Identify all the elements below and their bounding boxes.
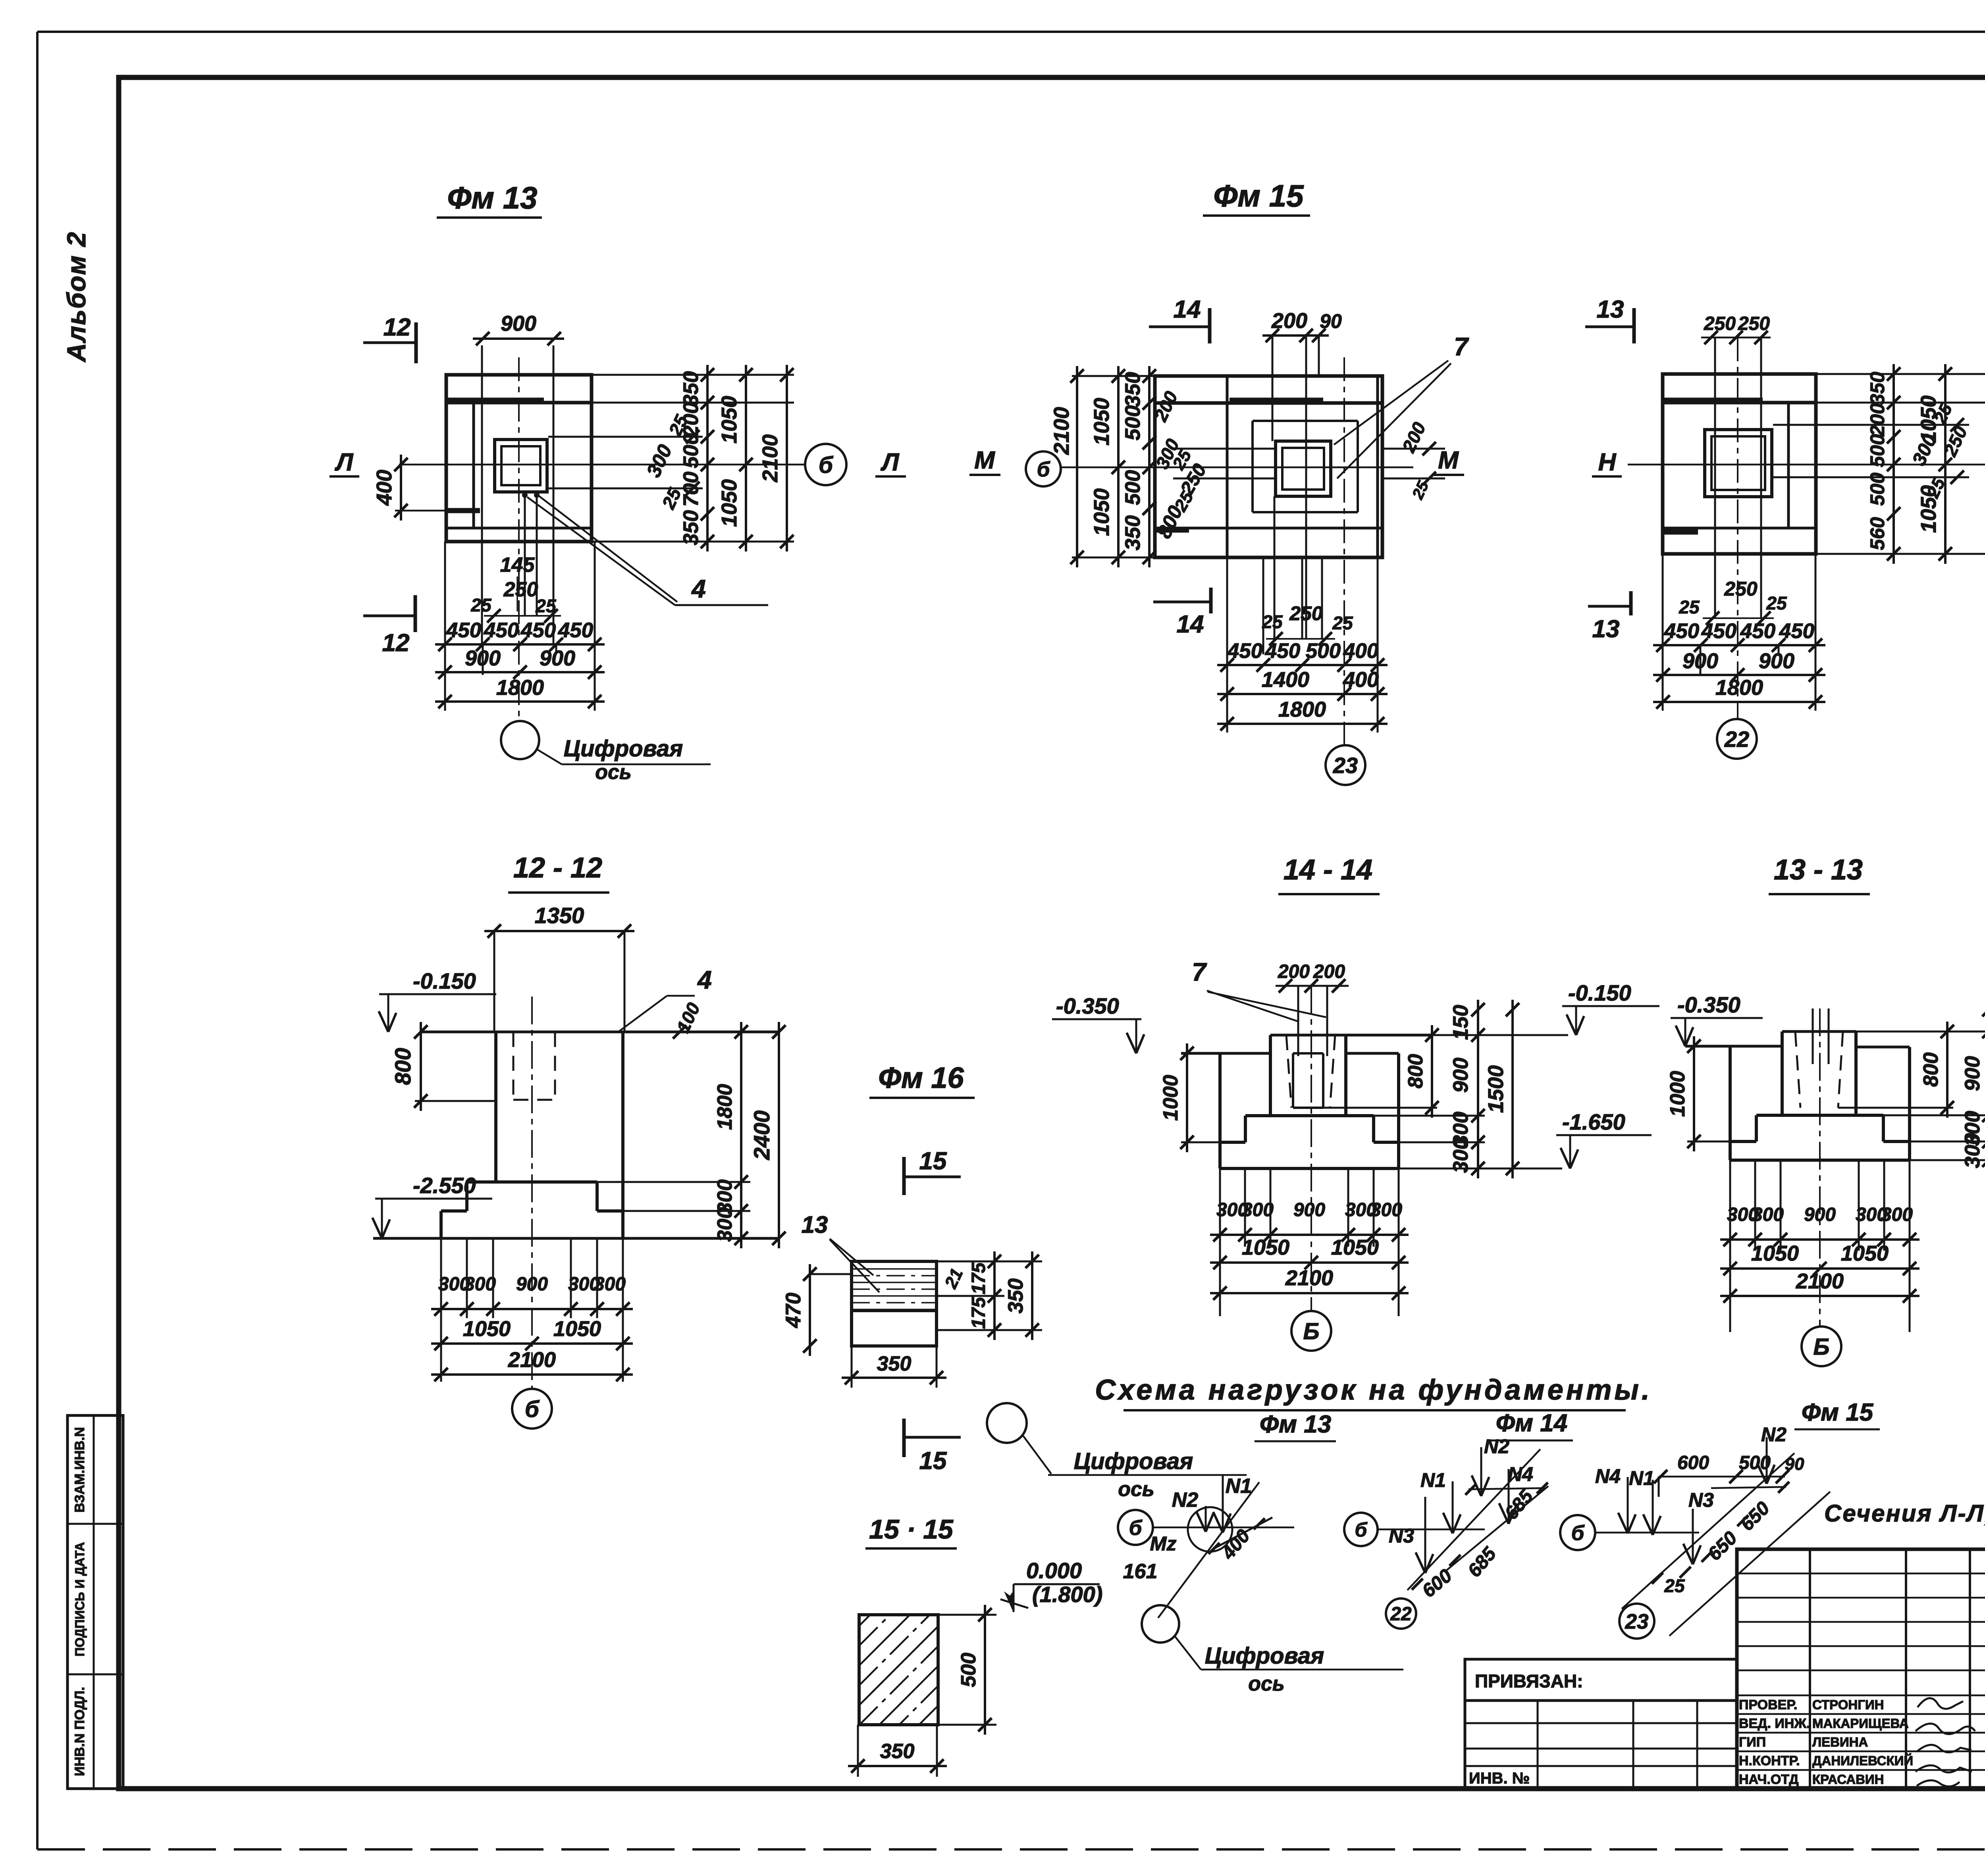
12-12 right chain 2400 bbox=[778, 1022, 780, 1248]
13-13 wing top right bbox=[1856, 1046, 1910, 1049]
svg-text:2100: 2100 bbox=[758, 434, 782, 482]
svg-text:250: 250 bbox=[1738, 313, 1770, 334]
svg-text:N4: N4 bbox=[1595, 1465, 1621, 1487]
FM16 dims 175-175 bbox=[993, 1251, 996, 1340]
svg-text:1050: 1050 bbox=[717, 396, 741, 443]
FM13 load diagonal bbox=[1158, 1482, 1259, 1618]
FM14 axis circle 22 bbox=[1717, 719, 1757, 759]
FM13 bottom-left dark wall segment bbox=[446, 508, 480, 513]
svg-text:350: 350 bbox=[880, 1740, 915, 1763]
FM13 bolt dot b bbox=[534, 492, 540, 498]
svg-text:450: 450 bbox=[1265, 639, 1300, 663]
FM16 dim 470 left bbox=[809, 1264, 811, 1356]
12-12 top dim 1350 bbox=[484, 930, 634, 932]
FM13 wall line extension left bbox=[395, 510, 446, 512]
svg-text:1050: 1050 bbox=[1841, 1242, 1889, 1265]
FM14 load diagonal main bbox=[1407, 1449, 1540, 1590]
svg-text:Цифровая: Цифровая bbox=[1205, 1643, 1324, 1669]
svg-text:500: 500 bbox=[679, 433, 703, 468]
FM15 left ext line bottom bbox=[1072, 557, 1155, 559]
FM16 mid line bbox=[852, 1310, 937, 1312]
FM15 right dim 200 bbox=[1382, 448, 1445, 450]
FM15 bottom chain segs bbox=[1217, 664, 1388, 666]
svg-text:1050: 1050 bbox=[1917, 485, 1941, 533]
svg-text:ЛЕВИНА: ЛЕВИНА bbox=[1812, 1735, 1868, 1749]
13-13 socket dashed bbox=[1795, 1032, 1800, 1108]
svg-text:1050: 1050 bbox=[1751, 1242, 1799, 1265]
14-14 bottom chain 2100 bbox=[1210, 1292, 1409, 1294]
13-13 left dim 1000 bbox=[1693, 1036, 1695, 1151]
FM15 axis line bbox=[1060, 467, 1413, 469]
svg-text:Сечения Л-Л, Н-Н, М-М см. лист: Сечения Л-Л, Н-Н, М-М см. лист КЖ-12. bbox=[1824, 1500, 1985, 1527]
12-12 bottom chain 300s bbox=[431, 1308, 633, 1310]
14-14 socket dashed bbox=[1286, 1035, 1291, 1108]
svg-text:1000: 1000 bbox=[1666, 1071, 1689, 1117]
svg-text:900: 900 bbox=[1759, 649, 1794, 673]
svg-text:900: 900 bbox=[1804, 1204, 1836, 1225]
svg-text:450: 450 bbox=[1740, 619, 1775, 643]
13-13 axis circle B bbox=[1802, 1327, 1841, 1366]
FM13 load circle b bbox=[1118, 1510, 1153, 1545]
FM14 section mark 13 bottom bbox=[1629, 591, 1633, 615]
12-12 dim 100 bbox=[673, 1025, 686, 1039]
svg-text:М: М bbox=[974, 447, 995, 474]
svg-text:ПОДПИСЬ И ДАТА: ПОДПИСЬ И ДАТА bbox=[73, 1542, 87, 1656]
svg-text:N2: N2 bbox=[1484, 1435, 1509, 1458]
FM13 socket bolt line a bbox=[524, 494, 526, 616]
FM15 load N4 bbox=[1627, 1477, 1629, 1533]
13-13 pedestal sides bbox=[1781, 1032, 1784, 1115]
14-14 socket walls bbox=[1292, 1053, 1294, 1108]
left stamp row line 1 bbox=[67, 1523, 123, 1525]
FM16 section mark 15 top bbox=[902, 1157, 906, 1195]
14-14 wing right edge bbox=[1397, 1053, 1400, 1142]
svg-text:500: 500 bbox=[957, 1653, 980, 1687]
svg-text:500: 500 bbox=[1866, 434, 1889, 467]
svg-text:90: 90 bbox=[1320, 310, 1342, 332]
13-13 wing right edge bbox=[1908, 1047, 1911, 1141]
FM13 bottom ext verticals bbox=[444, 542, 446, 711]
14-14 right chain 1500 bbox=[1511, 1000, 1514, 1178]
FM14 bottom chain 1800 bbox=[1653, 701, 1825, 703]
14-14 axis circle B bbox=[1291, 1311, 1331, 1351]
FM16 hatch lines bbox=[852, 1268, 937, 1270]
svg-text:N2: N2 bbox=[1172, 1488, 1199, 1512]
FM14 bottom chain 900s bbox=[1653, 674, 1825, 676]
svg-text:300: 300 bbox=[1881, 1204, 1913, 1225]
12-12 centerline bbox=[531, 997, 533, 1390]
FM13 load axis leader bbox=[1175, 1637, 1201, 1670]
FM14 slab outline bbox=[1663, 374, 1816, 554]
svg-text:(1.800): (1.800) bbox=[1032, 1582, 1102, 1607]
FM15 wall thin line y1130 bbox=[1173, 448, 1276, 450]
svg-text:Н.КОНТР.: Н.КОНТР. bbox=[1739, 1753, 1800, 1768]
FM14 section mark 13 top bbox=[1632, 308, 1636, 343]
svg-text:1500: 1500 bbox=[1484, 1065, 1508, 1113]
svg-text:23: 23 bbox=[1333, 753, 1358, 778]
FM13 column centerline bbox=[518, 357, 520, 721]
FM15 column socket outer bbox=[1276, 441, 1331, 496]
svg-text:500: 500 bbox=[1121, 470, 1145, 505]
14-14 wing top left bbox=[1181, 1052, 1270, 1055]
svg-text:б: б bbox=[819, 452, 834, 478]
svg-text:2100: 2100 bbox=[1796, 1269, 1844, 1293]
svg-text:500: 500 bbox=[1739, 1452, 1771, 1473]
svg-text:350: 350 bbox=[877, 1352, 912, 1375]
14-14 bolt lines bbox=[1297, 986, 1299, 1056]
svg-text:450: 450 bbox=[484, 619, 519, 642]
svg-text:450: 450 bbox=[1227, 639, 1262, 663]
FM13 top dim 900 bbox=[473, 337, 564, 340]
FM15 load axis line bbox=[1595, 1532, 1699, 1534]
svg-text:-0.150: -0.150 bbox=[413, 968, 476, 993]
FM15 bottom-left dark wall segment bbox=[1155, 528, 1189, 533]
FM15 load N2 bbox=[1766, 1437, 1768, 1484]
svg-text:N2: N2 bbox=[1761, 1423, 1786, 1446]
14-14 left dim 1000 bbox=[1186, 1043, 1188, 1152]
svg-text:ось: ось bbox=[595, 761, 632, 784]
FM16 ext right bbox=[937, 1261, 1042, 1263]
svg-text:НАЧ.ОТД: НАЧ.ОТД bbox=[1739, 1772, 1798, 1787]
sig table outline bbox=[1737, 1549, 1985, 1789]
14-14 step top bbox=[1245, 1114, 1374, 1117]
FM13 leader 4 tail bbox=[675, 604, 768, 606]
14-14 step sides bbox=[1244, 1116, 1247, 1142]
FM13 column socket outer bbox=[495, 440, 547, 492]
svg-text:б: б bbox=[1129, 1516, 1143, 1540]
svg-text:23: 23 bbox=[1625, 1610, 1649, 1633]
FM16 axis circle bbox=[987, 1403, 1027, 1443]
svg-text:1000: 1000 bbox=[1159, 1075, 1182, 1121]
FM14 top dim 250-250 bbox=[1701, 337, 1771, 339]
FM13 axis circle b bbox=[805, 444, 846, 485]
13-13 right ext 2875 bbox=[1910, 1141, 1985, 1143]
svg-text:200: 200 bbox=[1866, 403, 1889, 437]
svg-text:2100: 2100 bbox=[508, 1348, 556, 1372]
FM13 socket bolt line b bbox=[536, 494, 538, 616]
svg-text:Схема нагрузок на фундаменты.: Схема нагрузок на фундаменты. bbox=[1095, 1374, 1652, 1406]
FM13 bottom chain 450s bbox=[435, 643, 605, 646]
FM15 left chain 1050s bbox=[1117, 366, 1120, 567]
FM14 load N1 bbox=[1452, 1481, 1454, 1533]
svg-text:300: 300 bbox=[1449, 1138, 1472, 1173]
13-13 right ext 2809 bbox=[1883, 1114, 1985, 1116]
svg-text:Фм 13: Фм 13 bbox=[447, 180, 537, 215]
12-12 step1 sides bbox=[465, 1182, 468, 1211]
FM13 right ext line top bbox=[592, 374, 794, 376]
svg-text:14 - 14: 14 - 14 bbox=[1284, 854, 1372, 886]
svg-text:2100: 2100 bbox=[1050, 407, 1073, 455]
svg-text:25: 25 bbox=[470, 595, 492, 615]
svg-text:90: 90 bbox=[1785, 1454, 1804, 1474]
13-13 step sides bbox=[1755, 1115, 1758, 1141]
FM14 inner step vertical bbox=[1787, 403, 1790, 528]
svg-text:500: 500 bbox=[1866, 472, 1889, 506]
13-13 bolt lines bbox=[1812, 1008, 1814, 1064]
svg-text:Фм 15: Фм 15 bbox=[1802, 1399, 1874, 1426]
svg-text:Цифровая: Цифровая bbox=[1074, 1448, 1193, 1474]
svg-text:200: 200 bbox=[1271, 309, 1307, 333]
FM16 bottom dim 350 bbox=[842, 1377, 946, 1379]
FM13 small chain line bbox=[484, 615, 561, 617]
svg-text:161: 161 bbox=[1123, 1560, 1158, 1583]
12-12 right chain 1800-300-300 bbox=[740, 1022, 742, 1248]
FM14 bottom ext verticals bbox=[1662, 554, 1664, 711]
FM15 column socket inner bbox=[1282, 448, 1324, 490]
left stamp divider bbox=[93, 1415, 95, 1789]
svg-text:175: 175 bbox=[968, 1297, 989, 1329]
12-12 leader 4 bbox=[619, 996, 667, 1031]
14-14 bottom chain 1050s bbox=[1210, 1261, 1409, 1264]
14-14 pedestal top bbox=[1270, 1034, 1433, 1037]
FM13 vertical extension line 1394 bbox=[553, 345, 555, 644]
svg-text:25: 25 bbox=[1679, 597, 1700, 617]
svg-text:300: 300 bbox=[1752, 1204, 1784, 1225]
FM15 bolt line b bbox=[1305, 335, 1307, 639]
13-13 wing top left bbox=[1685, 1045, 1782, 1048]
svg-text:12: 12 bbox=[382, 629, 410, 657]
svg-text:1050: 1050 bbox=[463, 1317, 511, 1341]
svg-text:ДАНИЛЕВСКИЙ: ДАНИЛЕВСКИЙ bbox=[1812, 1753, 1913, 1768]
svg-text:1800: 1800 bbox=[496, 676, 544, 700]
svg-text:800: 800 bbox=[1404, 1054, 1427, 1089]
FM14 right chain 1050s bbox=[1944, 364, 1946, 564]
14-14 wing left edge bbox=[1218, 1053, 1222, 1142]
12-12 right ext 3050 bbox=[623, 1210, 750, 1212]
svg-text:Альбом 2: Альбом 2 bbox=[62, 231, 91, 363]
FM15 load N3 bbox=[1692, 1509, 1694, 1564]
14-14 bottom ext verticals bbox=[1219, 1168, 1221, 1316]
FM13 small dim 25-300-25 labels bbox=[686, 430, 700, 443]
svg-text:1350: 1350 bbox=[535, 903, 584, 928]
svg-text:900: 900 bbox=[1449, 1058, 1472, 1093]
svg-text:13 - 13: 13 - 13 bbox=[1774, 854, 1863, 886]
svg-text:800: 800 bbox=[390, 1048, 415, 1085]
FM15 top band dark wall segment bbox=[1230, 398, 1323, 403]
svg-text:22: 22 bbox=[1724, 727, 1749, 752]
FM15 load diagonal main bbox=[1622, 1453, 1794, 1609]
svg-text:350: 350 bbox=[1004, 1278, 1027, 1313]
privyazan grid outline bbox=[1465, 1701, 1737, 1789]
svg-text:1050: 1050 bbox=[1331, 1236, 1379, 1259]
svg-text:б: б bbox=[1037, 458, 1050, 481]
svg-text:450: 450 bbox=[446, 619, 481, 642]
13-13 bottom chain 1050s bbox=[1720, 1267, 1919, 1270]
14-14 right chain 150-900-300-300 bbox=[1477, 1000, 1479, 1178]
FM13 load axis line bbox=[1153, 1527, 1294, 1529]
FM14 load circle b bbox=[1344, 1513, 1378, 1546]
12-12 bottom ext verticals bbox=[440, 1238, 442, 1382]
svg-text:175: 175 bbox=[968, 1262, 989, 1294]
13-13 bottom ext verticals bbox=[1729, 1160, 1731, 1332]
privyazan grid cols bbox=[1537, 1701, 1539, 1789]
14-14 dim 800 bbox=[1431, 1025, 1433, 1118]
FM15 left chain 2100 bbox=[1076, 366, 1078, 567]
svg-text:300: 300 bbox=[464, 1274, 496, 1295]
FM15 bottom chain 1800 bbox=[1217, 723, 1388, 725]
signatures squiggles bbox=[1918, 1698, 1963, 1709]
14-14 bottom chain 300s bbox=[1210, 1234, 1409, 1236]
FM15 top band line bbox=[1155, 401, 1382, 405]
svg-text:0.000: 0.000 bbox=[1026, 1558, 1082, 1583]
svg-text:4: 4 bbox=[697, 966, 712, 994]
svg-text:560: 560 bbox=[1866, 517, 1889, 550]
svg-text:300: 300 bbox=[1370, 1199, 1402, 1220]
FM13 vertical extension line 1214 bbox=[481, 345, 483, 644]
14-14 right ext 2877 bbox=[1399, 1141, 1485, 1143]
FM13 section mark 12 top bbox=[414, 322, 418, 363]
svg-text:13: 13 bbox=[802, 1211, 828, 1238]
svg-text:СТРОНГИН: СТРОНГИН bbox=[1812, 1697, 1884, 1712]
svg-text:б: б bbox=[1355, 1519, 1368, 1541]
FM15 axis circle 23 bbox=[1326, 745, 1365, 785]
svg-text:250: 250 bbox=[1289, 602, 1323, 625]
FM15 centerline bbox=[1343, 357, 1345, 745]
svg-text:900: 900 bbox=[1293, 1199, 1325, 1220]
svg-text:ПРИВЯЗАН:: ПРИВЯЗАН: bbox=[1475, 1671, 1583, 1691]
FM14 right ext line band bbox=[1816, 402, 1985, 404]
svg-text:N3: N3 bbox=[1688, 1489, 1714, 1511]
FM14 load N4 bbox=[1508, 1469, 1510, 1524]
FM13 digital axis circle bbox=[501, 721, 539, 759]
svg-text:КРАСАВИН: КРАСАВИН bbox=[1812, 1772, 1884, 1787]
svg-text:900: 900 bbox=[540, 646, 575, 670]
15-15 hatched block outline bbox=[859, 1615, 938, 1725]
FM13 axis line bbox=[399, 464, 805, 466]
svg-text:7: 7 bbox=[1192, 958, 1207, 986]
FM15 load diagonal second bbox=[1669, 1492, 1830, 1636]
svg-text:1050: 1050 bbox=[717, 479, 741, 527]
svg-text:25: 25 bbox=[1766, 593, 1787, 613]
svg-text:300: 300 bbox=[1961, 1133, 1984, 1168]
FM14 load diagonal second bbox=[1445, 1486, 1548, 1571]
FM14 right chain segments bbox=[1892, 364, 1895, 564]
privyazan grid rows bbox=[1465, 1722, 1737, 1724]
svg-text:145: 145 bbox=[500, 553, 535, 576]
FM13 bottom chain 900s bbox=[435, 671, 605, 673]
svg-text:Фм 13: Фм 13 bbox=[1260, 1411, 1331, 1438]
FM13 right chain 1050s bbox=[745, 365, 747, 551]
svg-text:900: 900 bbox=[1961, 1056, 1984, 1091]
FM13 load axis circle bbox=[1142, 1605, 1179, 1643]
svg-text:450: 450 bbox=[520, 619, 556, 642]
svg-text:ГИП: ГИП bbox=[1739, 1735, 1766, 1750]
svg-text:б: б bbox=[525, 1396, 540, 1422]
svg-text:Л: Л bbox=[335, 449, 354, 476]
svg-text:12: 12 bbox=[384, 314, 411, 341]
FM14 bottom-left dark wall segment bbox=[1663, 530, 1698, 535]
13-13 pedestal top bbox=[1782, 1030, 1856, 1033]
FM13 inner step vertical bbox=[472, 403, 475, 528]
12-12 top surface line bbox=[421, 1031, 779, 1033]
FM15 wall thin line y1205 bbox=[1173, 478, 1276, 480]
FM15 inner step horizontal bbox=[1155, 527, 1382, 530]
svg-text:350: 350 bbox=[679, 510, 703, 545]
15-15 dim 350 bbox=[848, 1765, 947, 1767]
svg-text:б: б bbox=[1571, 1521, 1585, 1545]
svg-text:ИНВ. №: ИНВ. № bbox=[1469, 1770, 1530, 1787]
svg-text:М: М bbox=[1438, 447, 1459, 474]
12-12 right ext 2977 bbox=[597, 1181, 750, 1183]
svg-text:700: 700 bbox=[679, 472, 703, 507]
svg-text:500: 500 bbox=[1121, 405, 1145, 440]
FM13 right chain segments bbox=[706, 365, 709, 551]
svg-text:2100: 2100 bbox=[1285, 1266, 1333, 1290]
FM14 socket bolt line a bbox=[1714, 337, 1716, 618]
svg-text:14: 14 bbox=[1177, 611, 1204, 638]
svg-text:450: 450 bbox=[1664, 619, 1699, 643]
FM13 right ext line mid bbox=[703, 418, 719, 419]
FM13 right ext line band bbox=[592, 402, 794, 404]
svg-text:900: 900 bbox=[501, 312, 536, 335]
12-12 pedestal right edge bbox=[621, 1032, 624, 1238]
FM14 axis line bbox=[1628, 464, 1985, 466]
svg-text:13: 13 bbox=[1592, 615, 1620, 643]
FM14 bottom chain 450s bbox=[1653, 644, 1825, 646]
svg-text:1050: 1050 bbox=[553, 1317, 601, 1341]
12-12 left dim 800 bbox=[420, 1022, 422, 1111]
svg-text:470: 470 bbox=[782, 1293, 805, 1328]
FM16 dim 350 right bbox=[1031, 1251, 1033, 1340]
svg-text:15: 15 bbox=[919, 1147, 947, 1175]
13-13 step top bbox=[1756, 1114, 1883, 1117]
15-15 dim 500 bbox=[984, 1605, 986, 1735]
svg-text:-0.350: -0.350 bbox=[1056, 993, 1119, 1018]
svg-text:ПРОВЕР.: ПРОВЕР. bbox=[1739, 1697, 1797, 1712]
14-14 top dim 200-200 bbox=[1276, 985, 1349, 987]
FM15 bottom chain 1400-400 bbox=[1217, 693, 1388, 695]
FM15 top dim 200-90 bbox=[1262, 334, 1329, 337]
svg-text:450: 450 bbox=[558, 619, 593, 642]
FM15 bolt line a bbox=[1272, 335, 1274, 441]
FM15 axis circle b bbox=[1026, 451, 1061, 486]
FM14 right ext line top bbox=[1816, 373, 1985, 375]
svg-text:МАКАРИЩЕВА: МАКАРИЩЕВА bbox=[1812, 1716, 1909, 1731]
svg-text:350: 350 bbox=[1866, 372, 1889, 405]
FM13 digital axis leader bbox=[537, 749, 562, 764]
svg-text:300: 300 bbox=[1242, 1199, 1274, 1220]
FM13 right chain 2100 bbox=[786, 365, 788, 551]
svg-text:N1: N1 bbox=[1420, 1469, 1446, 1491]
FM15 inner vertical left strip bbox=[1226, 376, 1229, 557]
FM14 small chain line bbox=[1703, 617, 1774, 619]
FM14 right ext line bottom bbox=[1816, 553, 1985, 555]
12-12 bottom chain 2100 bbox=[431, 1373, 633, 1376]
14-14 pedestal sides bbox=[1269, 1035, 1272, 1116]
svg-text:N3: N3 bbox=[1389, 1525, 1414, 1547]
14-14 slab sides bbox=[1218, 1142, 1222, 1168]
FM14 wall thin line y1202 bbox=[1773, 476, 1969, 478]
svg-text:350: 350 bbox=[679, 371, 703, 406]
svg-text:Фм 14: Фм 14 bbox=[1496, 1409, 1567, 1437]
svg-text:25: 25 bbox=[1332, 613, 1353, 633]
FM15 slab outline bbox=[1155, 376, 1382, 557]
svg-text:7: 7 bbox=[1454, 332, 1469, 361]
14-14 wing top right bbox=[1346, 1052, 1399, 1055]
13-13 slab bottom bbox=[1730, 1159, 1910, 1162]
FM13 top band dark wall segment bbox=[446, 398, 544, 403]
svg-text:800: 800 bbox=[1919, 1053, 1943, 1087]
FM14 load N3 bbox=[1424, 1497, 1426, 1573]
svg-text:2400: 2400 bbox=[749, 1111, 774, 1161]
FM14 top band line bbox=[1663, 401, 1816, 405]
left stamp row line 2 bbox=[67, 1674, 123, 1675]
FM16 section mark 15 bottom bbox=[902, 1419, 906, 1457]
13-13 centerline bbox=[1819, 1008, 1821, 1326]
svg-text:500: 500 bbox=[1306, 639, 1341, 663]
svg-text:25: 25 bbox=[1664, 1575, 1685, 1596]
svg-text:ВЗАМ.ИНВ.N: ВЗАМ.ИНВ.N bbox=[72, 1427, 87, 1512]
